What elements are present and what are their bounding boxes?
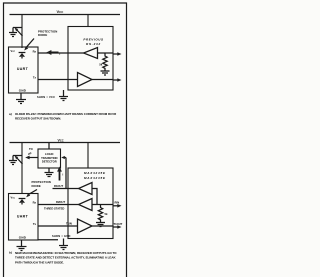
svg-text:GND: GND	[19, 236, 27, 240]
svg-text:OLDER RS-232: POWERED-DOWN UAR: OLDER RS-232: POWERED-DOWN UART DRAWS CU…	[15, 112, 117, 116]
ground under resistor A	[101, 71, 110, 75]
resistor 5k A	[103, 53, 107, 71]
current arrow A (points left)	[46, 50, 58, 55]
arrow: detector output to uP	[25, 156, 38, 160]
svg-text:THREE-STATE AND DETECT EXTERNA: THREE-STATE AND DETECT EXTERNAL ACTIVITY…	[15, 256, 116, 260]
wire: Vcc riser right box B	[87, 143, 89, 169]
ground under resistor B	[96, 223, 105, 227]
svg-text:DIODE: DIODE	[32, 184, 41, 188]
svg-text:Tx: Tx	[33, 76, 37, 80]
svg-text:THREE-STATED: THREE-STATED	[44, 207, 64, 211]
svg-text:VCC: VCC	[11, 49, 16, 53]
protection diode D2	[19, 199, 26, 205]
switch blade B	[15, 156, 23, 164]
svg-text:UART: UART	[17, 67, 29, 71]
svg-text:DIODE: DIODE	[38, 33, 47, 37]
receiver U2 R1	[79, 183, 93, 195]
wire: UART Vcc riser A	[21, 15, 23, 49]
arrow from label to diode D2	[26, 190, 37, 198]
ground under detector	[45, 168, 54, 177]
wire: T1IN net	[38, 225, 78, 227]
wire: detector Vcc riser	[48, 143, 50, 150]
svg-text:SHDN = VCC: SHDN = VCC	[37, 95, 55, 99]
svg-text:LOGIC: LOGIC	[45, 152, 54, 156]
wire: driver output B	[92, 225, 113, 227]
svg-text:RIN: RIN	[115, 200, 120, 204]
svg-text:NEW MAX3245E/MAX3235E: IN SHUT: NEW MAX3245E/MAX3235E: IN SHUTDOWN, RECE…	[15, 251, 117, 255]
external pin arrow A (bottom)	[113, 78, 122, 82]
svg-text:SHDN = GND: SHDN = GND	[52, 234, 71, 238]
ground under right box B	[59, 239, 68, 250]
wire: switch stub A	[13, 27, 22, 29]
svg-text:MAX3235E: MAX3235E	[84, 176, 106, 180]
ground under UART A	[16, 93, 26, 104]
svg-text:a): a)	[9, 112, 12, 116]
wire: Rx net A	[38, 52, 84, 54]
driver U2 T1	[78, 219, 93, 233]
svg-text:Rx: Rx	[33, 200, 37, 204]
wire: sense riser into detector	[61, 156, 66, 189]
svg-text:5k: 5k	[99, 63, 102, 67]
svg-text:R2OUT: R2OUT	[56, 200, 65, 204]
wire: gnd link under UART B	[38, 239, 58, 241]
wire: driver output A	[92, 79, 113, 81]
external pin arrow B (bottom)	[113, 225, 122, 229]
switch blade A	[15, 28, 23, 36]
svg-text:DETECTOR: DETECTOR	[42, 160, 57, 164]
svg-text:I: I	[63, 173, 64, 177]
protection diode D1	[19, 53, 26, 59]
ground under right box A	[59, 90, 68, 101]
external pin arrow B (top)	[113, 204, 122, 208]
wire: R1 input link	[92, 189, 97, 205]
wire: R1OUT net (to detector)	[53, 188, 79, 190]
svg-text:T1IN: T1IN	[66, 221, 72, 225]
current arrow B (points up)	[57, 167, 62, 181]
UART box B	[9, 194, 39, 241]
arrow from label to diode D1	[24, 39, 34, 51]
VCC rail B	[10, 142, 121, 144]
svg-text:VCC: VCC	[11, 196, 16, 200]
wire: receiver input A	[98, 52, 114, 54]
svg-text:MAX3245E: MAX3245E	[84, 171, 106, 175]
svg-text:5k: 5k	[105, 212, 108, 216]
ground under UART B	[17, 240, 27, 251]
figure frame	[4, 3, 127, 277]
logic transition detector box	[38, 149, 61, 168]
svg-text:PATH THROUGH THE UART DIODE.: PATH THROUGH THE UART DIODE.	[15, 260, 64, 264]
receiver U1 (a)	[84, 48, 98, 59]
svg-text:T1OUT: T1OUT	[114, 222, 123, 226]
svg-text:b): b)	[9, 251, 12, 255]
wire: receiver input B	[92, 204, 113, 206]
wire: Vcc riser right box A	[87, 15, 89, 27]
receiver U2 R2	[79, 199, 93, 211]
wire: switch stub B	[13, 155, 22, 157]
UART box A	[9, 47, 39, 93]
resistor 5k B	[98, 205, 102, 223]
svg-text:VCC: VCC	[57, 9, 64, 14]
wire: Tx net A	[38, 79, 78, 81]
wire: UART Vcc riser B	[21, 143, 23, 195]
svg-text:TO: TO	[29, 147, 33, 151]
svg-text:TRANSITION: TRANSITION	[41, 156, 57, 160]
svg-text:Rx: Rx	[33, 49, 37, 53]
wire: R2OUT net to UART Rx	[38, 204, 79, 206]
svg-text:RECEIVER OUTPUT SHUTDOWN.: RECEIVER OUTPUT SHUTDOWN.	[15, 117, 61, 121]
ground G1 (switch throw)	[9, 28, 17, 37]
svg-text:UART: UART	[17, 215, 29, 219]
svg-text:μP: μP	[28, 152, 32, 156]
svg-text:VCC: VCC	[58, 138, 64, 142]
svg-text:RS-232: RS-232	[86, 42, 101, 46]
svg-text:PREVIOUS: PREVIOUS	[83, 38, 103, 42]
svg-text:GND: GND	[19, 89, 27, 93]
ground G2 (switch throw)	[9, 156, 17, 165]
external pin arrow A (top)	[113, 52, 122, 56]
svg-text:R1OUT: R1OUT	[54, 184, 63, 188]
RS-232 transceiver box A	[68, 27, 113, 91]
driver U1 (a)	[78, 73, 93, 87]
transceiver box B	[68, 168, 113, 239]
svg-text:Tx: Tx	[33, 222, 37, 226]
VCC rail A	[10, 14, 121, 16]
